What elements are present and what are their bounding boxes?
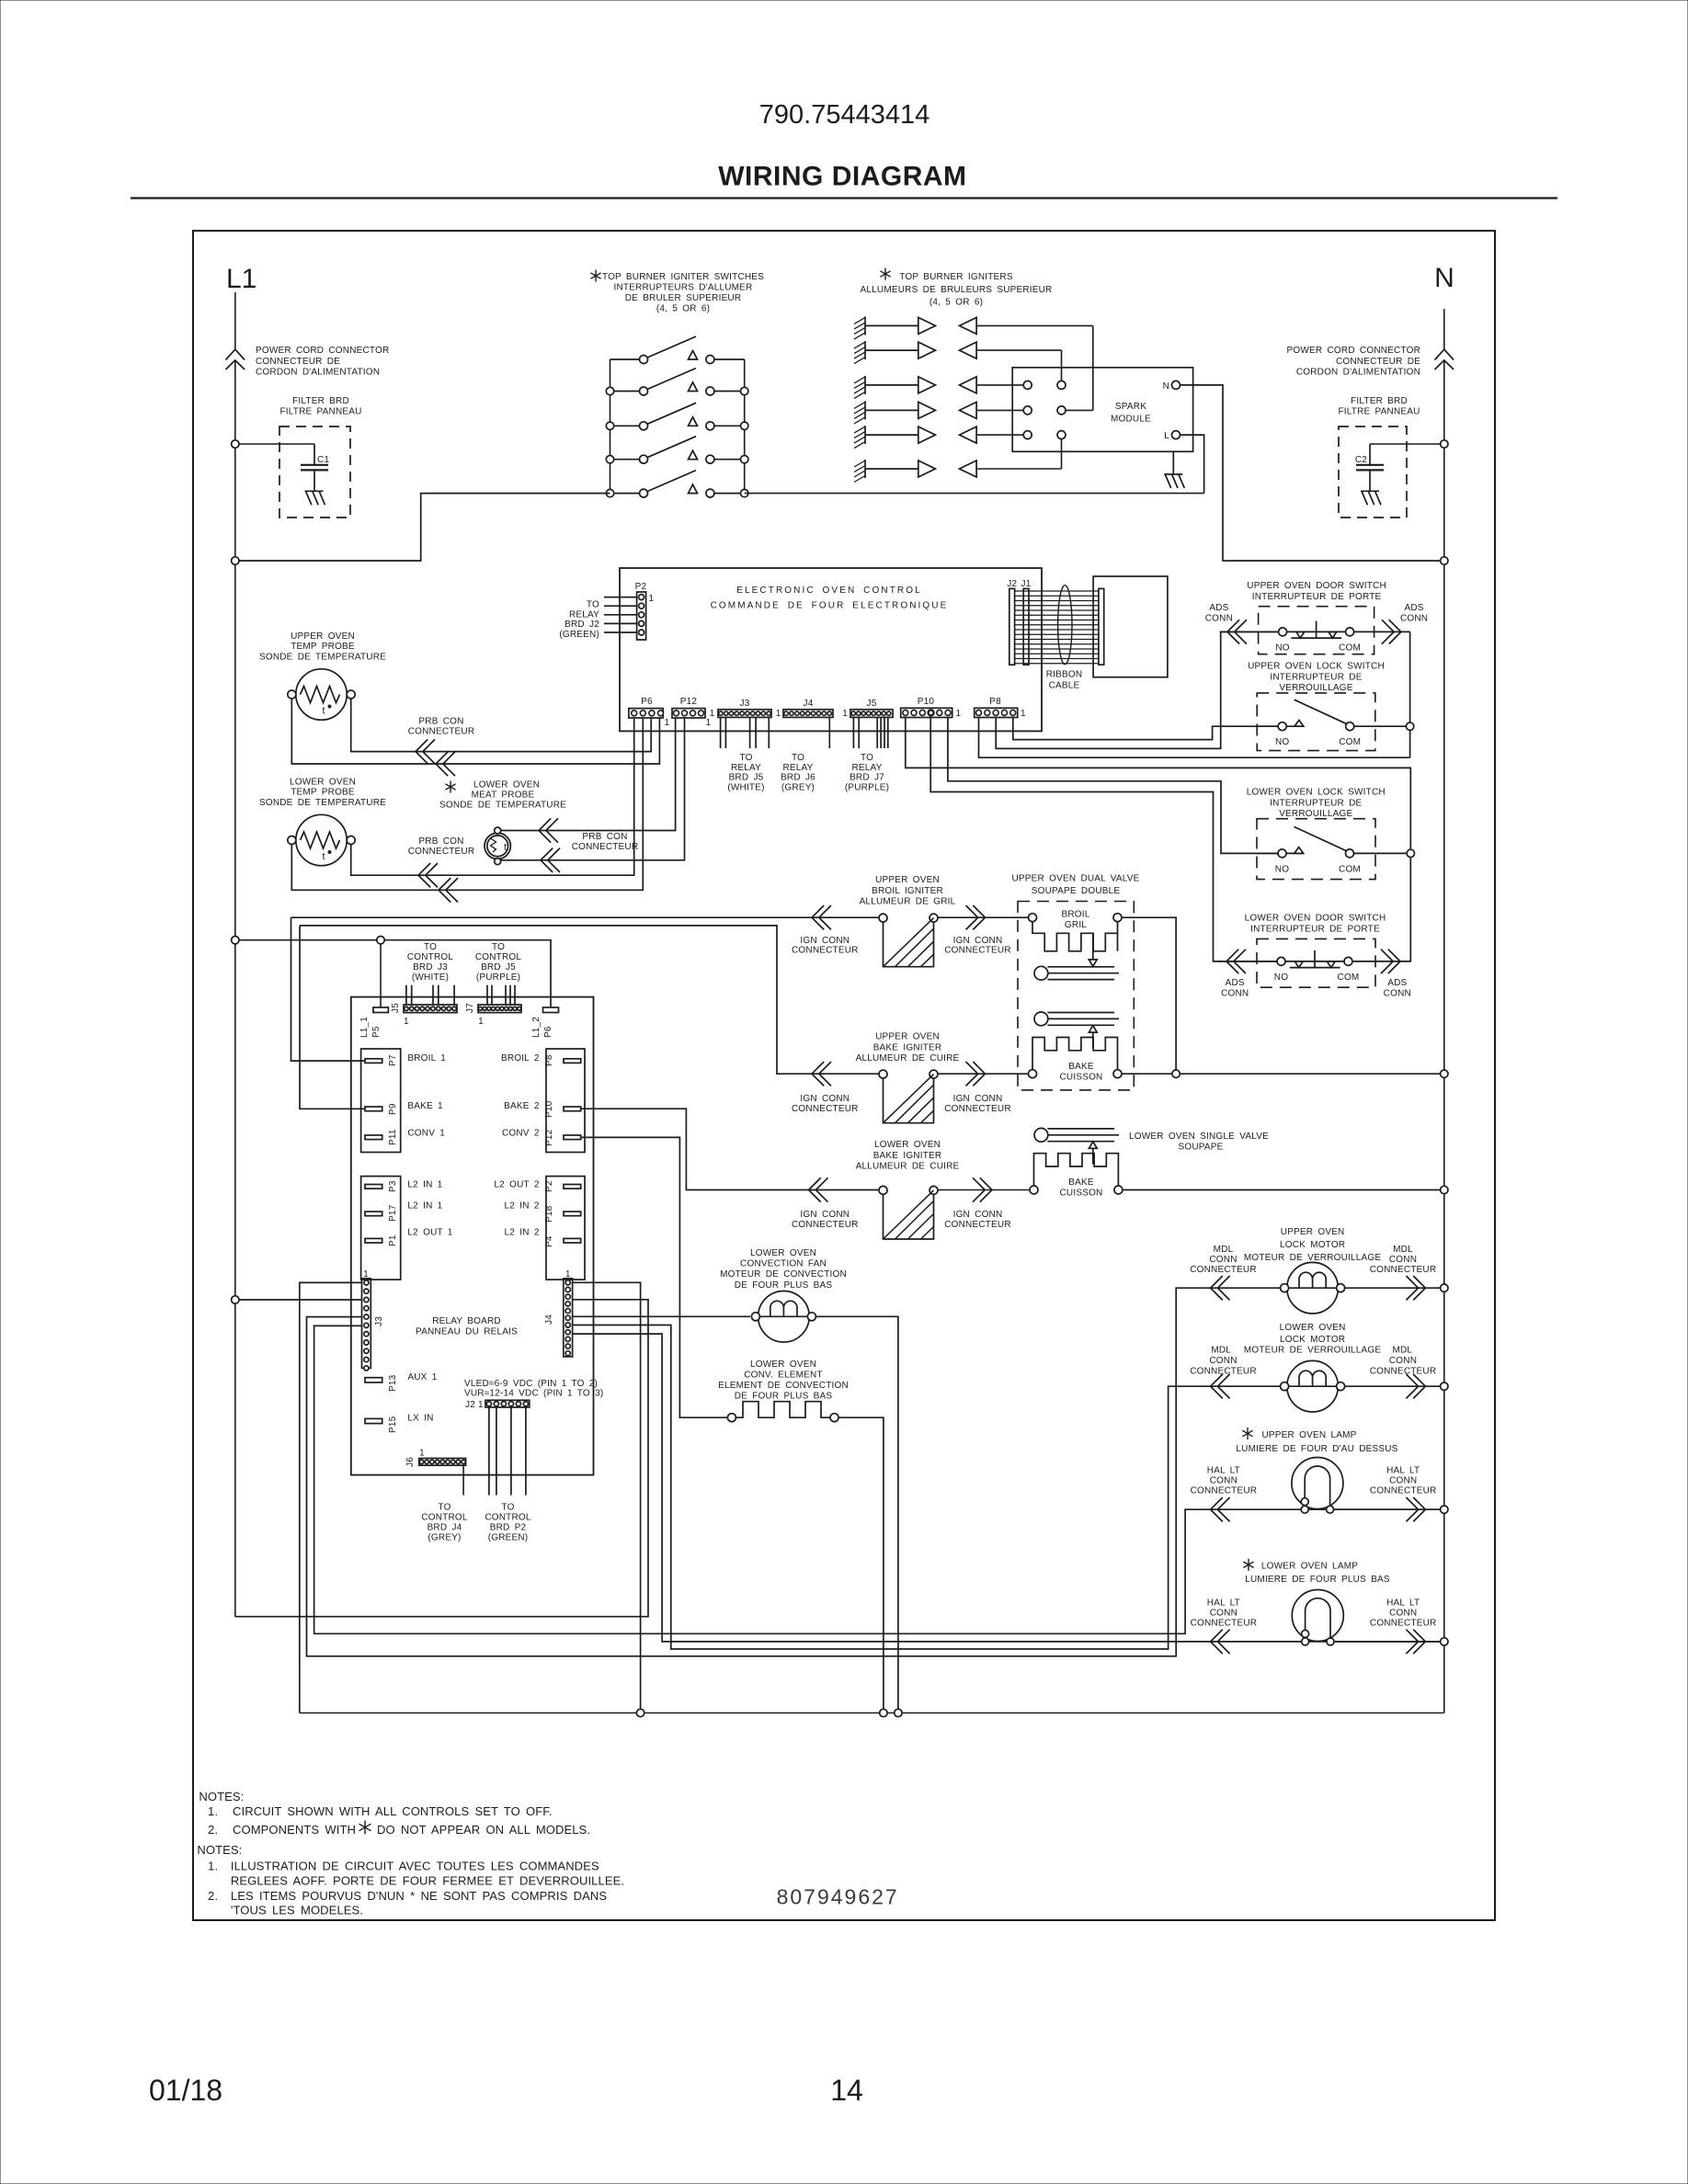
svg-text:J6: J6 <box>405 1457 416 1467</box>
capacitor C2 <box>1356 444 1384 491</box>
connector block P7 P9 P11 <box>361 1049 401 1153</box>
svg-text:J3: J3 <box>740 699 750 709</box>
svg-text:BAKE: BAKE <box>1068 1177 1094 1188</box>
switch SW2 <box>610 369 745 396</box>
svg-text:SONDE DE TEMPERATURE: SONDE DE TEMPERATURE <box>259 798 386 808</box>
svg-text:P4: P4 <box>544 1235 554 1247</box>
motor M3 lower lock <box>1281 1360 1345 1412</box>
svg-text:CONNECTEUR: CONNECTEUR <box>1190 1367 1257 1377</box>
connector J1 strip <box>1023 588 1029 665</box>
ADS connector right upper <box>1382 620 1401 643</box>
svg-text:NO: NO <box>1275 864 1289 874</box>
wire lower lamp to N <box>1335 1641 1441 1643</box>
svg-text:1: 1 <box>842 709 848 719</box>
svg-text:J5: J5 <box>391 1003 401 1013</box>
svg-text:LOWER OVEN: LOWER OVEN <box>874 1140 941 1150</box>
svg-text:CONN: CONN <box>1209 1356 1237 1366</box>
switch S3 lower oven lock <box>1256 819 1376 880</box>
svg-text:P8: P8 <box>989 697 1001 707</box>
svg-text:PRB CON: PRB CON <box>418 717 463 727</box>
svg-text:1: 1 <box>665 718 670 728</box>
junction switch right bus <box>741 489 748 496</box>
svg-text:IGN CONN: IGN CONN <box>953 936 1003 946</box>
svg-text:1: 1 <box>956 709 962 719</box>
svg-text:TOP BURNER IGNITERS: TOP BURNER IGNITERS <box>899 272 1013 282</box>
PRB connector meat b <box>541 848 560 872</box>
svg-text:TOP BURNER IGNITER SWITCHES: TOP BURNER IGNITER SWITCHES <box>602 272 764 282</box>
svg-text:DE FOUR PLUS BAS: DE FOUR PLUS BAS <box>735 1392 833 1402</box>
connector J3-EOC <box>718 710 771 718</box>
svg-text:TO: TO <box>492 942 505 952</box>
svg-text:LOWER OVEN: LOWER OVEN <box>750 1359 816 1370</box>
HAL LT connector left lower <box>1211 1630 1230 1654</box>
connector block P2 P18 P4 <box>546 1177 585 1280</box>
svg-text:UPPER OVEN: UPPER OVEN <box>875 1032 940 1042</box>
relay board box <box>351 997 594 1475</box>
stub wire J6 down <box>462 1465 464 1495</box>
svg-text:ADS: ADS <box>1226 978 1245 988</box>
junction L1 tab feed <box>232 937 239 944</box>
svg-text:CONNECTEUR DE: CONNECTEUR DE <box>256 357 340 367</box>
svg-text:t: t <box>504 842 507 853</box>
svg-text:IGN CONN: IGN CONN <box>800 936 850 946</box>
capacitor C1 <box>301 444 328 491</box>
junction upper lock COM <box>1406 722 1413 730</box>
wire L1 to relay board L1 tabs <box>235 940 551 1007</box>
ribbon cable destination box <box>1093 576 1168 677</box>
lamp DS1 upper oven <box>1292 1458 1343 1514</box>
svg-text:ILLUSTRATION DE CIRCUIT AVEC T: ILLUSTRATION DE CIRCUIT AVEC TOUTES LES … <box>231 1860 599 1873</box>
svg-text:14: 14 <box>830 2074 863 2107</box>
svg-text:LOWER OVEN LAMP: LOWER OVEN LAMP <box>1261 1562 1358 1572</box>
switch SW5 <box>610 471 745 497</box>
wire P8 pin5 to upper lock NO <box>1013 718 1278 740</box>
svg-text:P18: P18 <box>544 1205 554 1223</box>
svg-text:BAKE 1: BAKE 1 <box>407 1101 443 1111</box>
svg-text:CONNECTEUR: CONNECTEUR <box>1191 1485 1258 1496</box>
svg-text:TO: TO <box>424 942 437 952</box>
connector block P3 P17 P1 <box>361 1177 401 1280</box>
IGN connector right bake upper <box>966 1062 986 1086</box>
svg-text:BROIL 2: BROIL 2 <box>501 1053 540 1064</box>
svg-text:LES ITEMS POURVUS D'NUN * NE S: LES ITEMS POURVUS D'NUN * NE SONT PAS CO… <box>231 1889 607 1903</box>
ground under spark module <box>1172 451 1174 474</box>
svg-text:BRD J5: BRD J5 <box>729 773 764 783</box>
svg-text:(GREY): (GREY) <box>781 782 815 792</box>
svg-text:ALLUMEURS DE BRULEURS SUPERIEU: ALLUMEURS DE BRULEURS SUPERIEUR <box>861 285 1053 295</box>
wire J3 pin1 to neutral return <box>300 1282 362 1712</box>
junction switch left bus <box>606 456 613 463</box>
svg-text:CONNECTEUR: CONNECTEUR <box>944 1220 1011 1230</box>
wire switch right bus <box>744 359 746 494</box>
power cord connector symbol N <box>1435 349 1454 370</box>
wire J4 pin5 to convection fan <box>573 1315 750 1317</box>
junction switch left bus <box>606 422 613 429</box>
wire J4 pin3 to L1 <box>235 1300 648 1617</box>
wire bake1 loop <box>300 926 879 1074</box>
svg-text:SPARK: SPARK <box>1115 402 1146 412</box>
svg-text:P3: P3 <box>388 1180 398 1192</box>
wire broil igniter to valve <box>938 916 1028 918</box>
svg-text:C2: C2 <box>1355 455 1367 465</box>
svg-text:TEMP PROBE: TEMP PROBE <box>291 788 355 798</box>
junction N wire <box>1441 557 1448 564</box>
junction switch left bus <box>606 387 613 394</box>
stub wires J7 up <box>487 985 515 1005</box>
svg-text:PRB CON: PRB CON <box>418 836 463 847</box>
svg-text:TO: TO <box>739 753 752 763</box>
svg-text:HAL LT: HAL LT <box>1386 1465 1420 1475</box>
valve coil bake lower <box>1030 1154 1123 1194</box>
wire upper COM bus <box>1409 631 1411 757</box>
junction upper lamp N <box>1441 1506 1448 1513</box>
arrow broil valve <box>1089 934 1097 966</box>
junction J4 pin1 return <box>636 1709 644 1716</box>
svg-text:BRD J7: BRD J7 <box>850 773 884 783</box>
svg-text:BAKE IGNITER: BAKE IGNITER <box>873 1151 942 1161</box>
valve coil bake upper <box>1029 1038 1123 1078</box>
svg-text:CONN: CONN <box>1210 1609 1237 1619</box>
svg-text:LX IN: LX IN <box>407 1414 433 1424</box>
svg-text:SOUPAPE: SOUPAPE <box>1178 1143 1223 1153</box>
svg-text:BROIL: BROIL <box>1061 909 1089 919</box>
svg-text:AUX 1: AUX 1 <box>407 1372 437 1382</box>
switch SW3 <box>610 403 745 430</box>
svg-text:CONN: CONN <box>1384 989 1411 999</box>
svg-text:L2 IN 2: L2 IN 2 <box>505 1228 540 1238</box>
svg-text:CONNECTEUR: CONNECTEUR <box>792 946 859 956</box>
svg-text:1: 1 <box>478 1400 484 1410</box>
svg-text:807949627: 807949627 <box>777 1885 899 1909</box>
IGN connector left bake lower <box>809 1177 828 1201</box>
svg-text:POWER CORD CONNECTOR: POWER CORD CONNECTOR <box>256 346 389 356</box>
svg-text:P8: P8 <box>544 1054 554 1066</box>
svg-text:CONNECTEUR: CONNECTEUR <box>572 842 639 852</box>
svg-text:J4: J4 <box>544 1314 554 1325</box>
svg-text:P6: P6 <box>641 697 653 707</box>
connector J7 relay board <box>478 1005 521 1013</box>
junction P5 feed <box>377 937 384 944</box>
svg-text:1: 1 <box>404 1017 409 1027</box>
wire J4 pin1 to neutral return <box>573 1282 641 1712</box>
svg-text:LUMIERE DE FOUR PLUS BAS: LUMIERE DE FOUR PLUS BAS <box>1245 1575 1390 1585</box>
gas outlet bake upper <box>1034 1012 1119 1026</box>
svg-text:UPPER OVEN DOOR SWITCH: UPPER OVEN DOOR SWITCH <box>1247 581 1386 591</box>
svg-text:J2: J2 <box>1007 579 1017 589</box>
svg-text:1.: 1. <box>208 1804 218 1818</box>
svg-text:CONNECTEUR: CONNECTEUR <box>1370 1265 1437 1275</box>
svg-text:BRD J3: BRD J3 <box>413 962 448 973</box>
svg-text:P2: P2 <box>544 1180 554 1192</box>
svg-text:UPPER OVEN: UPPER OVEN <box>291 631 355 642</box>
svg-text:MOTEUR DE VERROUILLAGE: MOTEUR DE VERROUILLAGE <box>1244 1346 1382 1356</box>
junction valve to N bus <box>1441 1070 1448 1077</box>
tab P6 L1_2 <box>543 1007 559 1013</box>
svg-text:LOCK MOTOR: LOCK MOTOR <box>1280 1335 1345 1345</box>
svg-text:DE BRULER SUPERIEUR: DE BRULER SUPERIEUR <box>625 293 742 303</box>
svg-text:N: N <box>1163 381 1169 392</box>
stub wires J2 down <box>489 1407 526 1496</box>
svg-text:CONNECTEUR: CONNECTEUR <box>1370 1485 1437 1496</box>
svg-text:COMMANDE DE FOUR ELECTRONIQUE: COMMANDE DE FOUR ELECTRONIQUE <box>711 601 949 611</box>
svg-text:CUISSON: CUISSON <box>1060 1072 1103 1082</box>
igniter electrode row 6 <box>854 460 976 483</box>
svg-text:VUR≈12-14 VDC (PIN 1 TO 3): VUR≈12-14 VDC (PIN 1 TO 3) <box>464 1389 603 1399</box>
svg-text:MOTEUR DE CONVECTION: MOTEUR DE CONVECTION <box>720 1269 847 1280</box>
junction lower valve to N <box>1441 1186 1448 1193</box>
svg-text:CONVECTION FAN: CONVECTION FAN <box>740 1259 827 1269</box>
svg-text:CONN: CONN <box>1221 989 1249 999</box>
connector J5 relay board <box>404 1005 457 1013</box>
svg-text:CONNECTEUR: CONNECTEUR <box>1190 1265 1257 1275</box>
power cord connector symbol L1 <box>226 349 245 370</box>
gas outlet lower <box>1034 1128 1119 1142</box>
svg-text:1: 1 <box>565 1269 571 1280</box>
svg-text:BROIL 1: BROIL 1 <box>407 1053 446 1064</box>
igniter lower bake <box>879 1186 938 1239</box>
svg-text:BRD J4: BRD J4 <box>428 1522 462 1532</box>
svg-text:UPPER OVEN LAMP: UPPER OVEN LAMP <box>1262 1430 1357 1440</box>
connector J2 relay board <box>485 1400 530 1407</box>
svg-text:IGN CONN: IGN CONN <box>800 1094 850 1104</box>
wire lower lock COM to bus <box>1375 852 1407 854</box>
svg-text:CIRCUIT SHOWN WITH ALL CONTROL: CIRCUIT SHOWN WITH ALL CONTROLS SET TO O… <box>233 1804 553 1818</box>
svg-text:BROIL IGNITER: BROIL IGNITER <box>872 886 943 896</box>
wire neutral return bus <box>300 1712 1444 1714</box>
svg-text:J1: J1 <box>1021 579 1032 589</box>
PRB connector meat a <box>539 818 558 842</box>
svg-text:RIBBON: RIBBON <box>1046 670 1083 680</box>
svg-text:t: t <box>323 851 325 862</box>
svg-text:IGN CONN: IGN CONN <box>953 1094 1003 1104</box>
wire element to neutral return <box>838 1417 884 1712</box>
junction lower lock motor N <box>1441 1382 1448 1390</box>
border frame <box>193 231 1495 1920</box>
svg-text:L2 OUT 2: L2 OUT 2 <box>494 1179 539 1189</box>
tab P15 <box>365 1418 382 1423</box>
wire lower igniter to valve <box>938 1189 1030 1191</box>
PRB connector upper b <box>436 752 455 776</box>
svg-text:L2 OUT 1: L2 OUT 1 <box>407 1228 452 1238</box>
svg-text:CONTROL: CONTROL <box>407 952 454 962</box>
svg-text:COM: COM <box>1339 864 1361 874</box>
wire spark L <box>1180 435 1204 493</box>
svg-text:LOWER OVEN SINGLE VALVE: LOWER OVEN SINGLE VALVE <box>1129 1132 1269 1142</box>
svg-text:TO: TO <box>438 1502 451 1512</box>
svg-text:INTERRUPTEURS D'ALLUMER: INTERRUPTEURS D'ALLUMER <box>614 283 753 293</box>
svg-text:ELECTRONIC OVEN CONTROL: ELECTRONIC OVEN CONTROL <box>736 586 922 596</box>
svg-text:SONDE DE TEMPERATURE: SONDE DE TEMPERATURE <box>439 801 566 811</box>
switch SW4 <box>610 437 745 464</box>
electronic oven control box U1 <box>620 568 1042 731</box>
junction switch right bus <box>741 456 748 463</box>
svg-text:P12: P12 <box>680 697 698 707</box>
svg-text:UPPER OVEN: UPPER OVEN <box>1281 1227 1345 1237</box>
svg-text:ADS: ADS <box>1209 603 1228 613</box>
wire lower probe right to P6 <box>351 718 634 876</box>
arrow lower valve <box>1089 1142 1097 1165</box>
title rule <box>131 197 1557 199</box>
svg-text:ADS: ADS <box>1387 978 1407 988</box>
svg-text:2.: 2. <box>208 1889 218 1903</box>
IGN connector left broil <box>812 905 831 929</box>
heating element R1 conv <box>727 1402 838 1422</box>
svg-text:UPPER OVEN: UPPER OVEN <box>875 875 940 885</box>
svg-text:J4: J4 <box>804 699 814 709</box>
switch S4 lower oven door <box>1218 938 1411 987</box>
svg-text:MEAT PROBE: MEAT PROBE <box>472 791 535 801</box>
svg-text:CABLE: CABLE <box>1049 680 1080 690</box>
junction upper lock motor N <box>1441 1284 1448 1291</box>
wire igniter3 to spark <box>976 384 1023 386</box>
svg-text:RELAY: RELAY <box>851 763 882 773</box>
ADS connector right lower <box>1381 950 1400 973</box>
connector J4-EOC <box>783 710 833 718</box>
svg-text:ALLUMEUR DE CUIRE: ALLUMEUR DE CUIRE <box>856 1162 960 1172</box>
svg-text:CONN: CONN <box>1209 1255 1237 1265</box>
svg-text:CONN: CONN <box>1205 614 1233 624</box>
svg-text:HAL LT: HAL LT <box>1207 1465 1240 1475</box>
connector block P8 P10 P12 <box>546 1049 585 1153</box>
spark module box <box>1012 368 1192 452</box>
svg-text:CONNECTEUR: CONNECTEUR <box>792 1220 859 1230</box>
svg-text:L: L <box>1164 431 1169 441</box>
svg-text:2.: 2. <box>208 1823 218 1837</box>
svg-text:P10: P10 <box>918 697 935 707</box>
svg-text:CORDON D'ALIMENTATION: CORDON D'ALIMENTATION <box>256 368 380 378</box>
svg-text:P15: P15 <box>388 1416 398 1433</box>
MDL connector right upper <box>1406 1276 1425 1300</box>
wire broil1 row <box>291 916 880 918</box>
svg-text:C1: C1 <box>317 455 329 465</box>
svg-text:CONNECTEUR DE: CONNECTEUR DE <box>1336 357 1420 367</box>
svg-text:1: 1 <box>363 1269 369 1280</box>
svg-text:CONN: CONN <box>1389 1356 1417 1366</box>
wire N vertical bus <box>1443 360 1445 1713</box>
junction element return <box>880 1709 887 1716</box>
svg-text:LOWER OVEN LOCK SWITCH: LOWER OVEN LOCK SWITCH <box>1247 788 1386 798</box>
wire igniter1 drop <box>1092 325 1094 410</box>
svg-text:IGN CONN: IGN CONN <box>800 1210 850 1220</box>
wire lower probe left to P6 <box>291 718 643 891</box>
svg-text:CONNECTEUR: CONNECTEUR <box>1370 1619 1437 1629</box>
connector J2 strip <box>1009 588 1015 665</box>
svg-text:CONN: CONN <box>1210 1475 1237 1485</box>
svg-text:NOTES:: NOTES: <box>197 1843 242 1857</box>
junction valve rows <box>1172 1070 1180 1077</box>
svg-text:RELAY: RELAY <box>569 609 599 620</box>
svg-text:RELAY: RELAY <box>782 763 813 773</box>
PRB connector upper a <box>416 739 435 763</box>
svg-text:REGLEES AOFF. PORTE DE FOUR FE: REGLEES AOFF. PORTE DE FOUR FERMEE ET DE… <box>231 1874 624 1888</box>
wire P7 broil1 loop <box>291 917 366 1061</box>
svg-text:HAL LT: HAL LT <box>1386 1598 1420 1609</box>
svg-text:(GREY): (GREY) <box>428 1532 461 1542</box>
MDL connector left lower <box>1211 1374 1230 1398</box>
svg-text:P11: P11 <box>388 1129 398 1145</box>
svg-text:1: 1 <box>706 718 712 728</box>
svg-text:J7: J7 <box>465 1003 475 1013</box>
svg-text:LOWER OVEN: LOWER OVEN <box>473 779 540 790</box>
junction L1 feed <box>232 557 239 564</box>
valve dashed box <box>1018 902 1134 1090</box>
wire P12 tab to conv element <box>581 1137 728 1417</box>
connector J6 relay board <box>419 1459 466 1466</box>
svg-text:CONV 2: CONV 2 <box>502 1128 540 1138</box>
svg-text:INTERRUPTEUR DE PORTE: INTERRUPTEUR DE PORTE <box>1252 592 1382 602</box>
svg-text:MODULE: MODULE <box>1111 414 1151 424</box>
svg-text:DE FOUR PLUS BAS: DE FOUR PLUS BAS <box>735 1280 833 1291</box>
svg-text:L2 IN 1: L2 IN 1 <box>407 1200 442 1211</box>
igniter electrode row 4 <box>854 401 976 424</box>
svg-text:(PURPLE): (PURPLE) <box>476 973 520 983</box>
svg-text:ELEMENT DE CONVECTION: ELEMENT DE CONVECTION <box>718 1381 849 1391</box>
svg-text:FILTRE PANNEAU: FILTRE PANNEAU <box>1338 407 1420 417</box>
svg-text:INTERRUPTEUR DE: INTERRUPTEUR DE <box>1270 672 1362 682</box>
igniter electrode row 3 <box>854 376 976 399</box>
motor M1 convection fan <box>751 1291 815 1343</box>
switch S2 upper oven lock <box>1256 693 1376 751</box>
svg-text:PANNEAU DU RELAIS: PANNEAU DU RELAIS <box>416 1327 518 1337</box>
svg-text:LUMIERE DE FOUR D'AU DESSUS: LUMIERE DE FOUR D'AU DESSUS <box>1236 1444 1397 1454</box>
junction N-C2 <box>1441 440 1448 448</box>
wire J3 pin6 to upper lamp <box>314 1325 1441 1633</box>
IGN connector left bake upper <box>812 1062 831 1086</box>
svg-text:MDL: MDL <box>1211 1346 1231 1356</box>
ground under C2 <box>1361 491 1381 505</box>
HAL LT connector right lower <box>1406 1630 1425 1654</box>
svg-text:IGN CONN: IGN CONN <box>953 1210 1003 1220</box>
wire P10 pin4 to lower door NO <box>930 718 1278 961</box>
svg-text:VLED≈6-9 VDC (PIN 1 TO 2): VLED≈6-9 VDC (PIN 1 TO 2) <box>464 1379 598 1389</box>
svg-text:790.75443414: 790.75443414 <box>759 100 930 130</box>
wire J3 pin5 to upper lock motor <box>307 1288 1281 1656</box>
svg-text:CONNECTEUR: CONNECTEUR <box>944 1104 1011 1114</box>
wire upper lock COM to bus <box>1375 725 1407 727</box>
svg-text:INTERRUPTEUR DE PORTE: INTERRUPTEUR DE PORTE <box>1250 924 1380 934</box>
svg-text:TO: TO <box>861 753 873 763</box>
svg-text:CONNECTEUR: CONNECTEUR <box>944 946 1011 956</box>
igniter electrode row 1 <box>854 316 976 339</box>
wire L1 to J3 pin3 <box>235 1299 362 1301</box>
svg-text:P17: P17 <box>388 1204 398 1222</box>
resistor RT1 upper oven temp probe <box>288 669 355 720</box>
motor M2 upper lock <box>1281 1262 1345 1314</box>
wire C2 to N <box>1370 443 1444 445</box>
svg-text:WIRING DIAGRAM: WIRING DIAGRAM <box>718 162 966 192</box>
stub wire J4 to relay brd J6 <box>828 717 830 748</box>
wire igniter2 to spark <box>976 349 1061 351</box>
svg-text:L1: L1 <box>226 264 257 294</box>
svg-text:BAKE 2: BAKE 2 <box>504 1101 540 1111</box>
svg-text:CONN: CONN <box>1400 614 1428 624</box>
svg-text:J2: J2 <box>465 1400 475 1410</box>
switch SW1 <box>610 336 745 364</box>
wire to P5 tab <box>380 940 382 1007</box>
svg-text:P6: P6 <box>543 1026 553 1038</box>
svg-text:UPPER OVEN LOCK SWITCH: UPPER OVEN LOCK SWITCH <box>1248 662 1385 672</box>
svg-text:TO: TO <box>587 600 599 610</box>
svg-text:ALLUMEUR DE GRIL: ALLUMEUR DE GRIL <box>860 897 956 907</box>
svg-text:LOCK MOTOR: LOCK MOTOR <box>1280 1240 1345 1250</box>
junction lower lamp N <box>1441 1638 1448 1645</box>
wire bake row to N <box>1122 1073 1441 1075</box>
svg-text:(GREEN): (GREEN) <box>559 630 599 640</box>
svg-text:CONN: CONN <box>1389 1255 1417 1265</box>
svg-text:NO: NO <box>1274 973 1288 983</box>
svg-text:P7: P7 <box>388 1054 398 1066</box>
wire igniter2 drop <box>1061 350 1063 381</box>
